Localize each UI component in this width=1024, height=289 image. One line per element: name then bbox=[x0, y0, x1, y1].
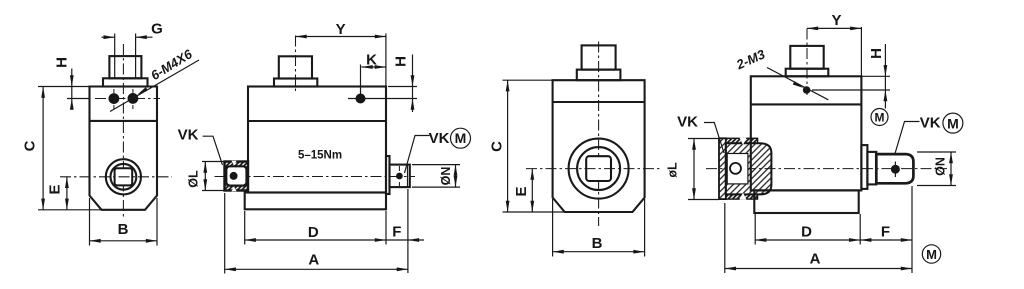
svg-text:D: D bbox=[801, 224, 812, 241]
view1 dimension B bbox=[90, 198, 158, 246]
svg-text:5–15Nm: 5–15Nm bbox=[298, 150, 342, 162]
view2 dimension K bbox=[362, 51, 386, 69]
svg-text:C: C bbox=[22, 140, 39, 151]
view2 body outline bbox=[245, 87, 386, 210]
view1 dimension H bbox=[54, 57, 74, 110]
view2 dimension OL bbox=[187, 162, 225, 191]
view3 dimension E bbox=[513, 169, 534, 212]
view3 body outline bbox=[553, 80, 645, 212]
svg-text:M: M bbox=[947, 115, 959, 131]
view4 circled M below H bbox=[871, 109, 888, 126]
svg-text:F: F bbox=[881, 224, 890, 241]
svg-text:C: C bbox=[489, 141, 506, 152]
svg-text:M: M bbox=[455, 130, 467, 146]
view2 label VK right with circled M and leader bbox=[405, 128, 471, 173]
view2 dimension D bbox=[245, 211, 386, 245]
view2 dimension A bbox=[225, 193, 408, 274]
view2 top screw bbox=[348, 65, 417, 104]
view1 dimension E bbox=[47, 177, 69, 210]
svg-text:M: M bbox=[926, 247, 937, 262]
svg-text:F: F bbox=[392, 223, 401, 240]
svg-text:E: E bbox=[47, 184, 64, 194]
view4 left square drive assembly bbox=[719, 138, 771, 200]
view2 connector plug bbox=[274, 56, 317, 86]
view1 screw left bbox=[109, 89, 120, 109]
view4 circled M bottom right bbox=[922, 245, 940, 263]
svg-text:øL: øL bbox=[666, 162, 680, 178]
view4 connector plug bbox=[786, 46, 829, 76]
view1 dimension G bbox=[102, 20, 163, 39]
view1 horizontal centerline bbox=[60, 176, 172, 178]
view4 label 2-M3 with leader bbox=[733, 46, 828, 100]
svg-text:D: D bbox=[308, 224, 319, 241]
view4 top screw bbox=[803, 86, 811, 94]
view4 right shaft bbox=[861, 145, 913, 189]
svg-text:B: B bbox=[592, 235, 603, 252]
view4 dimension Y bbox=[807, 12, 861, 76]
view2 dimension Y bbox=[296, 21, 387, 87]
view4 dimension OL bbox=[666, 139, 720, 200]
svg-text:Y: Y bbox=[831, 12, 841, 29]
view2 plug centerline / Y extension bbox=[295, 36, 297, 92]
svg-text:ØN: ØN bbox=[934, 157, 948, 176]
view4 label VK right with circled M and leader bbox=[895, 113, 963, 153]
view3 connector plug bbox=[577, 45, 621, 80]
view4 dimension ON bbox=[917, 152, 956, 186]
view2 left square drive shaft bbox=[225, 161, 249, 192]
view4 dimension H bbox=[812, 44, 890, 109]
view3 shaft bore circles bbox=[569, 139, 629, 199]
view2 horizontal centerline bbox=[215, 176, 416, 178]
svg-text:H: H bbox=[868, 48, 885, 59]
view3 center vertical centerline bbox=[598, 42, 600, 227]
view1 center vertical centerline bbox=[122, 44, 124, 217]
svg-text:VK: VK bbox=[429, 130, 450, 147]
svg-text:VK: VK bbox=[920, 114, 941, 131]
svg-text:E: E bbox=[513, 186, 530, 196]
view2 dimension H bbox=[388, 55, 417, 113]
view1 shaft bore circles bbox=[106, 159, 141, 194]
svg-text:ØL: ØL bbox=[187, 170, 201, 188]
view4 body outline bbox=[751, 76, 862, 213]
view2 label VK left with leader bbox=[178, 127, 223, 166]
view2 dimension F bbox=[386, 189, 424, 273]
view1 connector plug bbox=[103, 34, 148, 87]
svg-text:A: A bbox=[308, 252, 319, 269]
view4 dimension F bbox=[860, 186, 912, 273]
svg-text:K: K bbox=[366, 51, 377, 68]
svg-text:M: M bbox=[875, 111, 885, 125]
view1 body outline bbox=[90, 87, 158, 210]
svg-text:Y: Y bbox=[336, 21, 346, 38]
view2 dimension ON bbox=[412, 165, 460, 188]
svg-text:H: H bbox=[54, 57, 71, 68]
view4 dimension A bbox=[725, 203, 912, 273]
view4 label VK left with leader bbox=[677, 114, 724, 154]
view4 dimension D bbox=[755, 214, 860, 245]
svg-text:H: H bbox=[393, 56, 410, 67]
svg-text:VK: VK bbox=[178, 127, 199, 144]
svg-text:VK: VK bbox=[677, 114, 698, 131]
view3 dimension B bbox=[553, 199, 645, 257]
view1 dimension C bbox=[22, 87, 102, 210]
svg-text:ØN: ØN bbox=[439, 167, 453, 186]
view1 label 6-M4X6 with leader bbox=[110, 46, 199, 112]
view4 plug centerline / Y extension bbox=[806, 29, 808, 96]
view1 screws centerline bbox=[67, 98, 160, 100]
view4 horizontal centerline bbox=[706, 168, 947, 170]
view3 horizontal centerline bbox=[526, 168, 661, 170]
svg-text:A: A bbox=[810, 251, 821, 268]
view1 screw right bbox=[127, 89, 138, 109]
view2 right shaft bbox=[386, 156, 410, 194]
svg-text:B: B bbox=[118, 221, 129, 238]
svg-text:G: G bbox=[151, 20, 163, 37]
view3 dimension C bbox=[489, 80, 565, 212]
